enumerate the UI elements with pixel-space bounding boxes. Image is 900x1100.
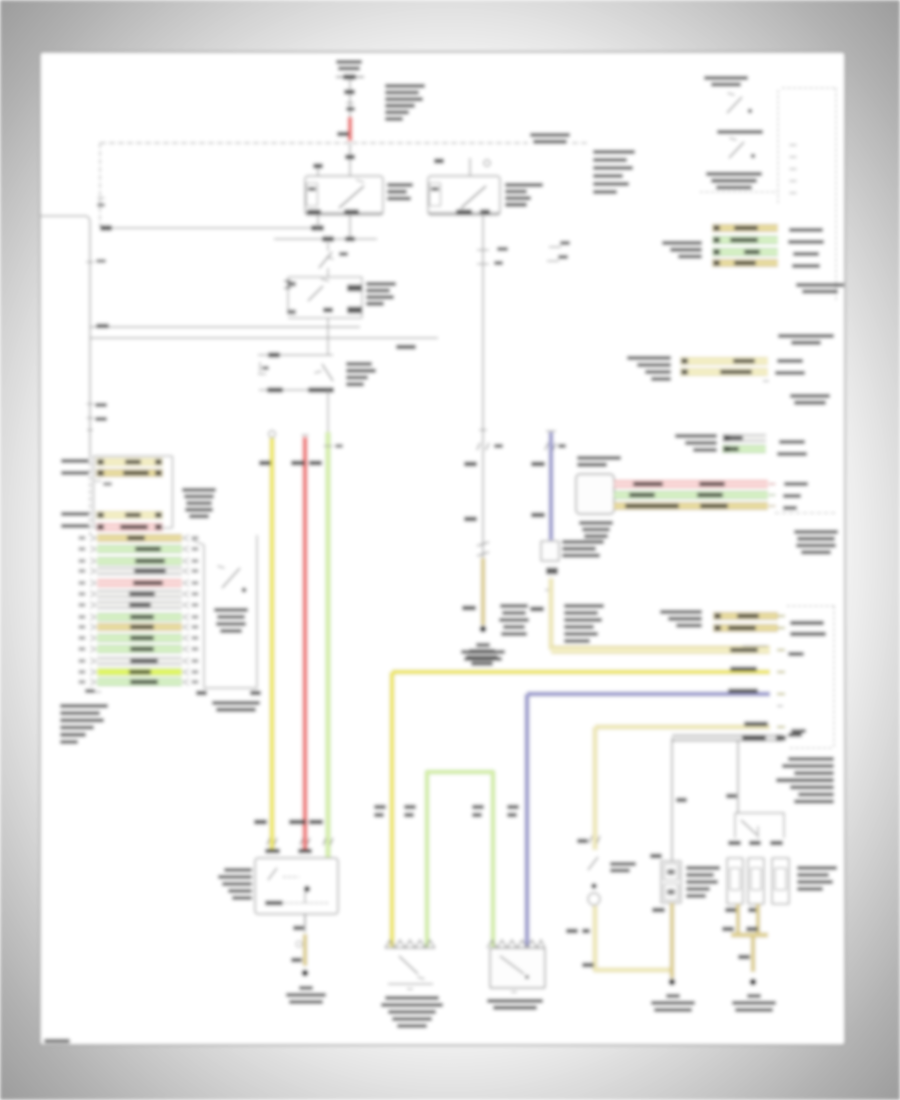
block left bus ticks bbox=[89, 455, 91, 535]
connector row 2 bbox=[96, 470, 163, 476]
pin labels above boxes bbox=[374, 805, 386, 809]
control module U1 box bbox=[288, 277, 362, 318]
joint connector X1 rows bbox=[712, 225, 778, 231]
module U1 label text bbox=[366, 282, 396, 286]
row y650 pale yellow bbox=[551, 647, 770, 653]
wire relay B to ground bbox=[736, 904, 740, 933]
sensor rows right ticks bbox=[769, 483, 776, 485]
switch S2 bottom label row bbox=[259, 389, 332, 391]
relay B pin labels bbox=[728, 841, 741, 846]
relay B text bbox=[797, 866, 837, 870]
sensor label text bbox=[579, 521, 613, 525]
branch end label bbox=[396, 345, 416, 349]
right tick column bbox=[777, 615, 785, 617]
coolant level sensor box bbox=[487, 940, 545, 948]
fuse F1 bbox=[336, 76, 364, 78]
wire bottom labels before switch bbox=[254, 820, 267, 825]
row y672 bright yellow wire bbox=[392, 670, 770, 675]
wire bright yellow L to washer switch bbox=[390, 672, 395, 947]
connector row 3 bbox=[96, 512, 163, 518]
relay K1 bottom bar pins bbox=[305, 212, 383, 214]
joint connector X4 row b bbox=[713, 625, 778, 631]
relay K2 label text bbox=[505, 183, 543, 187]
relay K2 box bbox=[428, 176, 500, 215]
wire fuse to node bbox=[349, 80, 351, 118]
wire purple L to coolant sensor bbox=[525, 694, 530, 947]
wiper switch inner marks bbox=[268, 868, 277, 880]
ground G1 label text bbox=[299, 986, 313, 990]
part number text bbox=[44, 1039, 70, 1043]
module U1 switch arm bbox=[308, 286, 323, 301]
washer pump label text bbox=[610, 862, 636, 866]
right big text block bbox=[788, 757, 834, 761]
switch S2 arm bbox=[322, 364, 333, 381]
wire relay A to ground bbox=[670, 903, 674, 978]
switch S2 label text bbox=[346, 362, 372, 366]
joint connector X2 rows bbox=[680, 358, 768, 364]
ground G2 dot bbox=[480, 626, 487, 633]
pin dash marks bbox=[790, 144, 797, 146]
combination switch S4 arm bbox=[729, 142, 744, 158]
W4 connector tick bbox=[545, 443, 556, 450]
column connector y447 bbox=[477, 443, 489, 450]
wiper area top text bbox=[469, 649, 495, 653]
door harness rows bbox=[97, 535, 182, 541]
combination switch label 1 bbox=[704, 76, 748, 80]
right zigzag pins bbox=[183, 535, 189, 541]
fuse F1 label bbox=[336, 60, 362, 64]
hot-at-all-times bus dashed wire bbox=[100, 142, 528, 144]
wire gray T to relay A bbox=[671, 738, 673, 861]
wire red vertical W2 bbox=[302, 434, 309, 436]
row side labels 1-2 bbox=[61, 459, 89, 463]
dashed bracket right lower bbox=[787, 605, 836, 607]
row y738 gray wire bbox=[672, 735, 782, 741]
X3 left label text bbox=[675, 434, 717, 438]
X1 bottom right text bbox=[796, 283, 844, 287]
red wire segment bbox=[348, 117, 352, 141]
connector box on W4 bbox=[541, 541, 559, 561]
texts near W4 bottom bbox=[500, 604, 528, 608]
connector ticks on wires W1 W2 W3 bbox=[267, 838, 277, 845]
wire S2 to green wire top bbox=[327, 390, 329, 432]
row y648 label bbox=[742, 646, 768, 651]
relay K1 box bbox=[305, 176, 383, 215]
bracket inner labels bbox=[790, 621, 824, 625]
coolant sensor label text bbox=[487, 999, 543, 1003]
relay B bracket bbox=[735, 813, 784, 838]
joint connector X3 rows bbox=[722, 435, 766, 441]
washer switch arm bbox=[399, 956, 418, 974]
washer fluid switch box bbox=[385, 940, 435, 948]
ground G4 dot bbox=[750, 979, 757, 986]
wire purple vertical W4 bbox=[546, 430, 556, 432]
sensor row red bbox=[614, 481, 768, 487]
instrument cluster text bbox=[790, 394, 830, 398]
bus label HOT AT ALL TIMES bbox=[530, 133, 570, 137]
multifunction text bbox=[778, 334, 834, 338]
wire pale yellow big L bbox=[593, 727, 598, 850]
switch S2 pin marks bbox=[258, 362, 266, 374]
rain light sensor box bbox=[576, 474, 614, 514]
relay K2 top pins bbox=[469, 158, 471, 176]
X2 right labels bbox=[777, 359, 803, 363]
block bottom tick bbox=[93, 691, 101, 693]
relay K1 top pin wires bbox=[317, 163, 319, 176]
wiper switch box bbox=[255, 858, 338, 914]
connector pin 30 blob bbox=[344, 90, 355, 95]
thermal switch S1 bbox=[327, 243, 329, 251]
door unit text bottom bbox=[60, 704, 108, 708]
X4 left label text bbox=[660, 610, 702, 614]
column connector break y545 bbox=[477, 542, 489, 556]
relay B feed wire bbox=[737, 740, 739, 813]
left bus connector tick bbox=[86, 261, 94, 263]
wire bus branch y338 bbox=[90, 337, 438, 339]
wire green vertical W3 bbox=[326, 432, 331, 858]
headlamp switch text bbox=[214, 608, 248, 612]
row y694 purple wire bbox=[527, 692, 770, 697]
relay K2 inner pin box bbox=[430, 183, 441, 206]
ground G4 text bbox=[747, 994, 761, 998]
washer switch bottom bbox=[388, 983, 433, 985]
joint connector X4 row a bbox=[713, 613, 778, 619]
X3 right labels bbox=[779, 440, 805, 444]
node 30 label bbox=[337, 132, 349, 137]
washer pump connector ticks bbox=[589, 836, 600, 843]
headlamp switch bracket bbox=[192, 535, 257, 688]
memory text bbox=[212, 701, 260, 705]
connector row 4 bbox=[96, 524, 163, 530]
wire column lower khaki bbox=[481, 558, 485, 625]
row side labels 3-4 bbox=[61, 512, 89, 516]
wire pale yellow from W4 to row bbox=[551, 578, 770, 648]
wire W3 tick and label bbox=[324, 445, 333, 447]
steering lock control text bbox=[593, 150, 635, 154]
wire module to switch node bbox=[327, 318, 329, 355]
bus corner wire to left bbox=[99, 143, 101, 227]
relay K1 switch arm bbox=[339, 186, 364, 208]
dashed bracket lines top right bbox=[700, 191, 778, 193]
wire relay K2 to ground column bbox=[482, 213, 484, 560]
X2 left label text bbox=[627, 356, 671, 360]
relay K2 bottom bar bbox=[428, 212, 500, 214]
ground G1 dot bbox=[302, 970, 309, 977]
fuse module label text bbox=[385, 84, 425, 88]
row ticks bbox=[95, 480, 101, 482]
relay A text bbox=[686, 866, 720, 870]
wire green jumper bbox=[427, 772, 493, 947]
column connector ticks y250 bbox=[477, 249, 489, 251]
module U1 pin node bbox=[323, 308, 333, 313]
switch S2 top wire bbox=[258, 354, 333, 356]
headlamp switch arm bbox=[222, 568, 240, 588]
overhead panel text bbox=[794, 530, 838, 534]
wire wiper switch to ground bbox=[304, 914, 306, 932]
module U1 left pins bbox=[284, 281, 291, 288]
relay K1 inner pin box bbox=[307, 183, 318, 206]
left bus notch wire bbox=[40, 216, 90, 455]
relay B boxes bbox=[727, 858, 743, 904]
relay K2 switch arm bbox=[461, 186, 486, 208]
ground G3 dot bbox=[669, 979, 676, 986]
wire yellow vertical W1 bbox=[269, 431, 276, 438]
relay B bottom labels bbox=[725, 908, 738, 913]
combination switch label 2 bbox=[717, 130, 763, 134]
W4 labels bbox=[531, 462, 545, 467]
relay A box bbox=[661, 861, 681, 903]
row y727 pale yellow wire bbox=[595, 725, 770, 730]
sensor row khaki bbox=[614, 503, 768, 509]
wire bus to relay K1 pin bbox=[102, 227, 318, 229]
ground G2 label text bbox=[476, 643, 490, 647]
sensor right labels bbox=[784, 482, 808, 486]
relay K1 label text bbox=[387, 183, 413, 187]
wire bus branch y327 bbox=[90, 326, 360, 328]
column labels bbox=[464, 462, 477, 467]
steering module text bbox=[706, 172, 762, 176]
W4 right text bbox=[577, 456, 621, 460]
wire W1 top label bbox=[259, 461, 271, 466]
dashed link to bracket bbox=[775, 512, 838, 514]
left bus pin labels bbox=[87, 403, 94, 405]
X1 left label text bbox=[662, 241, 702, 245]
wire W2 top labels bbox=[291, 461, 305, 466]
ground G3 text bbox=[666, 994, 680, 998]
coolant sensor float arm bbox=[500, 956, 524, 974]
left zigzag pins bbox=[90, 535, 96, 541]
wire relay K1 pin to thermal switch node bbox=[349, 214, 351, 239]
door module connector box bbox=[94, 456, 173, 528]
X1 right pin labels bbox=[789, 228, 823, 232]
door module text right bbox=[182, 488, 216, 492]
floating connector marks bbox=[547, 247, 561, 261]
module U1 right connector blobs bbox=[347, 285, 362, 292]
combination switch S3 arm bbox=[727, 97, 742, 113]
sensor row green bbox=[614, 492, 768, 498]
wiper switch label text bbox=[224, 868, 252, 872]
connector row 1 bbox=[96, 459, 163, 465]
W4 lower connector blob bbox=[546, 568, 558, 575]
column tick y430 bbox=[479, 429, 487, 431]
washer pump symbol bbox=[588, 857, 598, 870]
washer switch label text bbox=[385, 996, 439, 1000]
wire pump to ground corner bbox=[595, 906, 672, 970]
relay A labels bbox=[650, 854, 662, 859]
